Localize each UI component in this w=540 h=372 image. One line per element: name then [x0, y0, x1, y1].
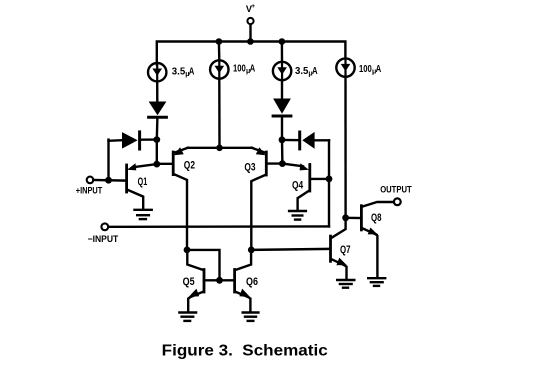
- svg-text:+: +: [251, 3, 255, 10]
- label Q4: [292, 179, 304, 191]
- label Q1: [138, 176, 148, 188]
- label Q3: [244, 162, 255, 174]
- svg-text:100: 100: [359, 64, 372, 75]
- svg-text:Figure 3. Schematic: Figure 3. Schematic: [162, 342, 328, 359]
- label OUTPUT: [380, 185, 412, 195]
- ground GND-Q4: [289, 211, 306, 220]
- diode D2h (horizontal, right): [282, 132, 329, 149]
- svg-text:Q7: Q7: [340, 244, 351, 256]
- svg-text:Q6: Q6: [246, 276, 258, 288]
- node Q5/Q6 common base: [216, 277, 223, 284]
- svg-text:Q4: Q4: [292, 179, 304, 191]
- -INPUT terminal: [101, 223, 329, 230]
- node Q1 emitter / Q2 base: [153, 161, 160, 168]
- ground GND-Q8: [368, 278, 385, 286]
- node +INPUT/D1 junction: [105, 177, 112, 184]
- node Q3 base / Q4 emitter: [279, 160, 286, 167]
- wire top supply rail: [157, 42, 346, 65]
- wire Q2/Q3 emitter rail: [188, 147, 252, 149]
- node rail-V+ junction: [247, 38, 254, 45]
- svg-text:A: A: [189, 67, 195, 78]
- svg-text:A: A: [376, 64, 382, 75]
- node D1/D1h junction: [153, 136, 160, 143]
- diode D1h (horizontal, left): [109, 132, 157, 149]
- wire I1 to diode D1: [156, 81, 159, 101]
- label 100uA (right): [359, 64, 381, 75]
- transistor Q8: [346, 202, 394, 277]
- current source I1 3.5uA: [148, 63, 166, 81]
- transistor Q5: [187, 250, 234, 312]
- transistor Q7: [331, 218, 347, 279]
- svg-text:A: A: [250, 64, 256, 75]
- label Q2: [184, 159, 195, 171]
- svg-text:−INPUT: −INPUT: [88, 234, 119, 244]
- transistor Q2: [157, 147, 188, 250]
- label Q5: [183, 276, 195, 288]
- label Q7: [340, 244, 351, 256]
- wire +INPUT to diode D1h: [107, 140, 109, 181]
- svg-text:Q2: Q2: [184, 159, 195, 171]
- svg-text:A: A: [312, 66, 318, 77]
- svg-text:Q1: Q1: [138, 176, 148, 188]
- label -INPUT: [88, 234, 119, 244]
- transistor Q3: [251, 147, 282, 250]
- svg-text:100: 100: [233, 64, 246, 75]
- label Q8: [371, 212, 382, 224]
- svg-text:Q8: Q8: [371, 212, 382, 224]
- ground GND-Q6: [243, 313, 259, 321]
- current source I4 100uA: [336, 58, 354, 76]
- current source I2 100uA: [210, 42, 228, 79]
- svg-text:3.5: 3.5: [295, 66, 309, 77]
- label Q6: [246, 276, 258, 288]
- label +INPUT: [76, 186, 103, 196]
- label 3.5uA (right): [295, 66, 318, 77]
- wire D2h to -INPUT line: [328, 140, 330, 226]
- svg-text:OUTPUT: OUTPUT: [380, 185, 412, 195]
- wire I3 to diode D2: [281, 80, 283, 98]
- transistor Q4: [282, 163, 329, 209]
- node Q3 collector / Q6 collector: [248, 247, 255, 254]
- wire I4 to node Q8 base: [344, 77, 347, 218]
- wire mirror tie to Q5/Q6 bases: [187, 250, 220, 280]
- node D2/D2h junction: [279, 136, 286, 143]
- transistor Q1: [127, 163, 157, 209]
- OUTPUT terminal: [394, 198, 401, 205]
- label 3.5uA: [172, 67, 195, 78]
- svg-text:3.5: 3.5: [172, 67, 186, 78]
- node I2/emitter rail junction: [216, 145, 223, 152]
- label 100uA: [233, 64, 255, 75]
- svg-text:Q5: Q5: [183, 276, 195, 288]
- ground GND-Q1: [135, 210, 152, 219]
- wire D2 node to Q3 base node: [281, 140, 284, 164]
- node Q8 base / Q7 collector: [342, 214, 349, 221]
- current source I3 3.5uA: [273, 42, 291, 81]
- node rail-I3 junction: [279, 38, 286, 45]
- svg-text:Q3: Q3: [244, 162, 255, 174]
- wire I2 to Q2/Q3 emitter rail: [218, 79, 221, 148]
- diode D1 (vertical): [149, 102, 167, 140]
- ground GND-Q7: [337, 280, 354, 288]
- transistor Q6: [235, 250, 252, 312]
- ground GND-Q5: [179, 313, 196, 321]
- svg-text:+INPUT: +INPUT: [76, 186, 103, 196]
- +INPUT terminal: [87, 177, 126, 184]
- wire Q3 collector node to Q7 base: [251, 249, 329, 250]
- wire D1 node to Q1 emitter node: [156, 140, 158, 165]
- diode D2 (vertical): [273, 99, 291, 140]
- node Q4 base junction: [326, 176, 333, 183]
- node Q2 collector / Q5 collector: [184, 247, 191, 254]
- label V+: [246, 3, 255, 14]
- node rail-I2 junction: [216, 38, 223, 45]
- V+ terminal: [247, 18, 253, 42]
